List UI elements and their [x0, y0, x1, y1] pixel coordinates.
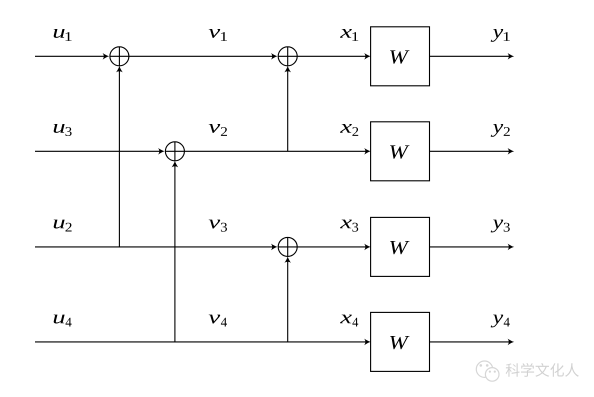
label W2: [390, 145, 409, 158]
wire row1 box W1 output y1: [430, 55, 511, 57]
arrowhead into adder B: [158, 148, 165, 155]
adder B circle-plus: [165, 142, 184, 161]
wire row3 adderD to box W3: [297, 246, 367, 248]
adder C circle-plus: [278, 47, 297, 66]
arrowhead into box W1: [364, 53, 371, 60]
label u2: [54, 220, 65, 229]
adder D circle-plus: [278, 237, 297, 256]
adder A circle-plus: [110, 47, 129, 66]
box W3: [371, 217, 430, 276]
arrowhead output y1: [508, 53, 515, 60]
label x3: [340, 220, 352, 229]
wire vertical V4 row4 to adderD: [287, 260, 289, 342]
arrowhead up into adder A: [116, 66, 123, 73]
label x2: [340, 124, 352, 133]
label W4: [390, 336, 409, 349]
wire vertical V3 row2 to adderC: [287, 70, 289, 152]
arrowhead into adder A: [103, 53, 110, 60]
wire vertical V1 row3 to adderA: [118, 70, 120, 247]
arrowhead up into adder B: [172, 161, 179, 168]
wire row3 box W3 output y3: [430, 246, 511, 248]
wire row2 input u3: [35, 150, 161, 152]
label u3: [54, 124, 65, 133]
label y4: [491, 315, 504, 328]
label y1: [491, 29, 504, 42]
wire row1 input u1: [35, 55, 105, 57]
label v2: [209, 124, 221, 133]
arrowhead output y3: [508, 244, 515, 251]
wire row1 adderC to box W1: [297, 55, 367, 57]
label y3: [491, 220, 504, 233]
label v3: [209, 220, 221, 229]
arrowhead output y4: [508, 339, 515, 346]
label W3: [390, 241, 409, 254]
label v1: [209, 29, 221, 38]
arrowhead into adder D: [271, 244, 278, 251]
box W1: [371, 27, 430, 86]
arrowhead up into adder D: [284, 256, 291, 263]
arrowhead up into adder C: [284, 66, 291, 73]
box W4: [371, 312, 430, 371]
watermark logo eyes: [480, 364, 496, 373]
watermark logo bubbles: [476, 361, 499, 381]
wire row1 adderA to adderC: [129, 55, 274, 57]
wire vertical V2 row4 to adderB: [174, 165, 176, 342]
arrowhead into box W3: [364, 244, 371, 251]
arrowhead into box W2: [364, 148, 371, 155]
label x4: [340, 315, 352, 324]
arrowhead output y2: [508, 148, 515, 155]
box W2: [371, 122, 430, 181]
label u1: [54, 29, 65, 38]
wire row2 adderB to box W2: [184, 150, 367, 152]
arrowhead into box W4: [364, 339, 371, 346]
wire row3 input u2: [35, 246, 274, 248]
label v4: [209, 315, 221, 324]
wire row4 input u4: [35, 341, 367, 343]
arrowhead into adder C: [271, 53, 278, 60]
wire row2 box W2 output y2: [430, 150, 511, 152]
label y2: [491, 124, 504, 137]
label x1: [340, 29, 352, 38]
wire row4 box W4 output y4: [430, 341, 511, 343]
label W1: [390, 50, 409, 63]
watermark text 科学文化人: [506, 363, 579, 377]
label u4: [54, 315, 65, 324]
